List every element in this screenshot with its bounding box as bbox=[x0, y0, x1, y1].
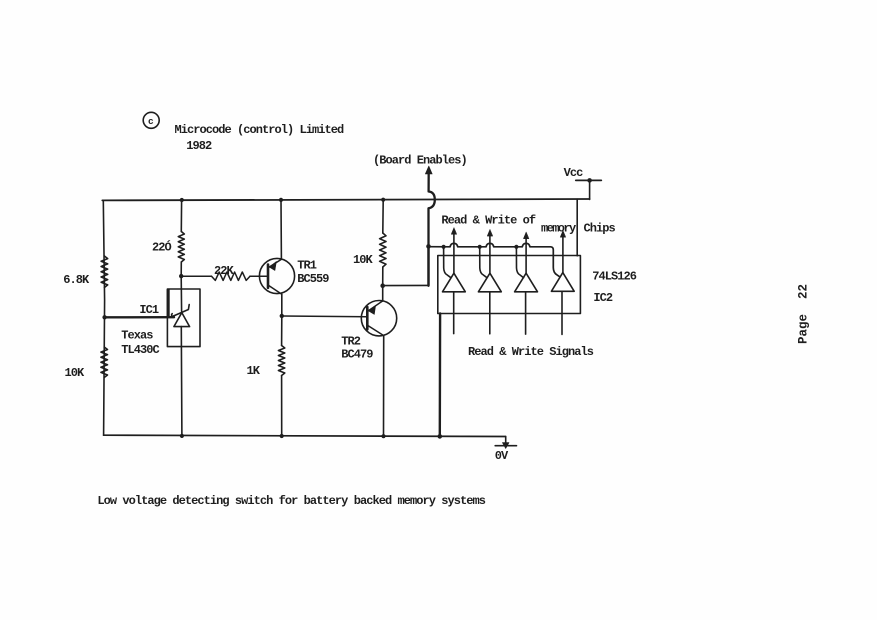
transistor TR2 (BC479 PNP) bbox=[361, 301, 396, 336]
wire IC1 reference input (thick) bbox=[105, 316, 175, 318]
resistor 10K (lower left) bbox=[101, 347, 108, 378]
wire node B to 1K resistor bbox=[281, 316, 283, 346]
junction dot top rail / 10K branch bbox=[381, 198, 385, 202]
wire buffer 3 input bbox=[525, 292, 527, 334]
wire buffer 4 input bbox=[561, 291, 563, 334]
junction dot enable / buffer 1 bbox=[442, 245, 446, 249]
wire IC2 Vcc pin from top rail bbox=[576, 199, 578, 256]
junction dot left wire / IC1 ref bbox=[102, 315, 106, 319]
buffer 4 triangle bbox=[551, 273, 574, 292]
junction dot enable / buffer 3 bbox=[514, 245, 518, 249]
wire IC2 ground pin to bottom rail (thick) bbox=[439, 314, 442, 437]
svg-text:1982: 1982 bbox=[186, 139, 212, 153]
wire node A to 22K resistor bbox=[181, 275, 211, 277]
buffer 3 triangle bbox=[515, 273, 538, 292]
IC1 zener cathode bar bbox=[172, 305, 190, 317]
svg-text:(Board Enables): (Board Enables) bbox=[373, 154, 467, 168]
junction dot enable / buffer 2 bbox=[478, 245, 482, 249]
junction dot top rail / 220 branch bbox=[180, 198, 184, 202]
svg-text:c: c bbox=[148, 116, 154, 127]
wire enable drop to buffer 2 bbox=[480, 247, 487, 278]
svg-text:Low voltage detecting switch f: Low voltage detecting switch for battery… bbox=[97, 494, 485, 508]
svg-text:Chips: Chips bbox=[584, 222, 616, 236]
svg-text:22K: 22K bbox=[214, 264, 235, 278]
wire node C to board-enable vertical bbox=[383, 284, 429, 286]
wire 22K to TR1 base bbox=[250, 275, 267, 277]
wire 220-ohm branch from top rail bbox=[180, 200, 182, 231]
wire 1K to bottom rail bbox=[281, 376, 283, 437]
copyright symbol bbox=[143, 112, 159, 128]
wire buffer 2 input bbox=[489, 292, 491, 334]
junction dot bottom rail / 1K bbox=[280, 434, 284, 438]
node B junction dot (TR1 collector / 1K / TR2 base) bbox=[280, 314, 284, 318]
wire 10K branch from top rail bbox=[382, 200, 384, 233]
svg-text:Vcc: Vcc bbox=[564, 166, 584, 180]
junction dot bottom rail / IC2 ground bbox=[438, 434, 443, 439]
svg-text:10K: 10K bbox=[65, 366, 86, 380]
wire IC1 cathode (node A into box) bbox=[180, 276, 182, 311]
svg-text:0V: 0V bbox=[495, 449, 509, 463]
transistor TR1 (BC559 PNP) bbox=[259, 258, 294, 294]
svg-text:10K: 10K bbox=[353, 253, 374, 267]
resistor 220 ohm bbox=[178, 232, 184, 263]
junction dot bottom rail / IC1 bbox=[180, 434, 184, 438]
svg-text:TR1: TR1 bbox=[297, 258, 317, 272]
wire IC1 anode to bottom rail bbox=[180, 327, 183, 436]
svg-text:TL430C: TL430C bbox=[121, 343, 159, 357]
IC1 box outline bbox=[167, 289, 200, 347]
wire node B to TR2 base bbox=[282, 315, 367, 318]
resistor 10K (right) bbox=[380, 233, 386, 267]
arrowhead Board Enables (up) bbox=[425, 166, 432, 174]
node C junction dot (10K / TR2 top lead / enable link) bbox=[380, 283, 385, 288]
power Vcc symbol bbox=[576, 178, 602, 199]
node D junction dot (board enable / 74LS126 enables) bbox=[426, 244, 431, 249]
svg-text:IC1: IC1 bbox=[139, 303, 159, 317]
node A junction dot (220 / 22K / IC1 cathode) bbox=[179, 274, 183, 278]
resistor 22K bbox=[212, 272, 251, 280]
svg-text:Read & Write Signals: Read & Write Signals bbox=[468, 345, 594, 359]
svg-text:BC479: BC479 bbox=[341, 347, 373, 361]
junction dot top rail / TR1 emitter bbox=[279, 198, 283, 202]
svg-text:Microcode (control) Limited: Microcode (control) Limited bbox=[175, 123, 345, 137]
ground 0V symbol bbox=[495, 437, 516, 449]
IC2 74LS126 box outline bbox=[438, 256, 581, 314]
resistor 1K bbox=[278, 346, 284, 376]
wire 10K to node C bbox=[382, 267, 384, 286]
svg-text:memory: memory bbox=[541, 222, 576, 236]
svg-text:Page 22: Page 22 bbox=[797, 284, 811, 344]
buffer 1 triangle bbox=[443, 273, 466, 292]
wire top Vcc rail bbox=[102, 199, 589, 200]
wire buffer 1 input bbox=[453, 292, 455, 334]
wire corner board-enable vertical to node C link bbox=[427, 246, 429, 285]
IC1 zener triangle (anode) bbox=[174, 313, 190, 327]
wire TR2 bottom lead to bottom rail bbox=[383, 336, 385, 437]
svg-text:74LS126: 74LS126 bbox=[592, 269, 637, 283]
wire buffer 1 output with arrowhead bbox=[453, 234, 455, 274]
wire TR1 emitter to top rail bbox=[280, 200, 282, 259]
wire enable drop to buffer 1 bbox=[444, 247, 451, 278]
wire TR2 top lead to node C bbox=[382, 286, 384, 301]
buffer 2 triangle bbox=[478, 273, 501, 292]
wire buffer 2 output with arrowhead bbox=[489, 235, 491, 273]
wire enable drop to buffer 3 bbox=[516, 247, 523, 278]
wire 220 resistor to node A bbox=[180, 262, 182, 276]
wire left vertical branch bbox=[103, 200, 104, 435]
svg-text:TR2: TR2 bbox=[341, 334, 361, 348]
wire buffer 3 output with arrowhead bbox=[525, 238, 527, 273]
svg-text:BC559: BC559 bbox=[297, 272, 329, 286]
resistor 6.8K bbox=[101, 256, 108, 288]
svg-text:Read & Write of: Read & Write of bbox=[441, 214, 536, 228]
svg-text:Texas: Texas bbox=[121, 329, 153, 343]
svg-text:1K: 1K bbox=[247, 364, 261, 378]
IC1 box thick left-edge mark bbox=[167, 290, 170, 316]
junction dot bottom rail / TR2 bbox=[381, 434, 385, 438]
wire TR1 collector down to node B bbox=[281, 294, 283, 316]
svg-text:22Ó: 22Ó bbox=[152, 240, 172, 255]
wire bottom 0V rail bbox=[104, 435, 506, 436]
svg-text:IC2: IC2 bbox=[593, 291, 613, 305]
wire Board Enables vertical with hop over top rail (thick) bbox=[429, 172, 435, 286]
wire buffer 4 output with arrowhead bbox=[562, 237, 564, 272]
wire enable bus to buffer enables (with hops over outputs) bbox=[429, 243, 561, 277]
svg-text:6.8K: 6.8K bbox=[63, 273, 90, 287]
